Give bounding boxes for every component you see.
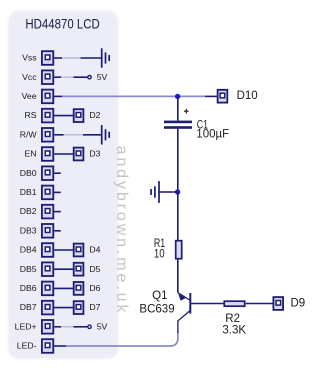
wire node A to C1 <box>177 96 179 120</box>
svg-text:D6: D6 <box>89 283 100 293</box>
svg-text:100µF: 100µF <box>196 129 229 141</box>
svg-text:EN: EN <box>25 149 37 159</box>
pin R/W connector <box>42 128 53 142</box>
svg-text:DB7: DB7 <box>20 302 37 312</box>
svg-text:DB2: DB2 <box>20 206 37 216</box>
5V supply terminal (LED+) <box>88 325 91 328</box>
svg-text:5V: 5V <box>97 321 108 331</box>
svg-text:5V: 5V <box>97 72 108 82</box>
node A junction (Vee / C1 / D10) <box>175 94 180 99</box>
wire LED- to Q1 emitter <box>54 345 66 347</box>
connector D10 <box>218 90 228 103</box>
svg-text:DB0: DB0 <box>20 168 37 178</box>
svg-text:D2: D2 <box>89 110 100 120</box>
wire Vee to node A <box>54 95 62 97</box>
svg-text:DB5: DB5 <box>20 264 37 274</box>
wire Q1 base to R2 <box>191 303 223 305</box>
pin EN connector <box>42 147 53 161</box>
connector D3 <box>74 148 84 161</box>
wire node B to R1 <box>177 192 179 240</box>
wire R1 to Q1 collector <box>177 260 179 293</box>
svg-text:DB4: DB4 <box>20 245 37 255</box>
connector D4 <box>74 244 84 257</box>
pin LED+ connector <box>42 320 53 334</box>
pin DB0 connector <box>42 166 53 180</box>
svg-text:10: 10 <box>154 249 165 261</box>
pin DB4 connector <box>42 243 53 257</box>
wire C1 to node B <box>177 129 179 192</box>
5V supply terminal (Vcc) <box>88 76 91 79</box>
wire Vss to ground <box>54 57 62 59</box>
pin DB7 connector <box>42 301 53 315</box>
svg-text:andybrown.me.uk: andybrown.me.uk <box>113 146 130 316</box>
svg-text:Vee: Vee <box>22 91 37 101</box>
svg-text:D4: D4 <box>89 245 100 255</box>
connector D9 <box>273 297 283 310</box>
ground symbol (R/W) <box>101 125 103 144</box>
pin RS connector <box>42 109 53 123</box>
svg-text:Vss: Vss <box>22 53 37 63</box>
wire DB6 to D6 <box>54 287 73 289</box>
svg-text:HD44870 LCD: HD44870 LCD <box>25 15 99 31</box>
connector D6 <box>74 282 84 295</box>
pin Vss connector <box>42 51 53 65</box>
wire R2 to D9 <box>246 303 273 305</box>
connector D5 <box>74 263 84 276</box>
svg-text:R/W: R/W <box>20 129 38 139</box>
stub wire DB1 <box>54 191 61 193</box>
svg-text:Vcc: Vcc <box>22 72 37 82</box>
transistor Q1 collector limb with arrow <box>178 293 191 301</box>
resistor R1 <box>176 241 182 259</box>
svg-text:3.3K: 3.3K <box>222 325 246 337</box>
connector D2 <box>74 109 84 122</box>
svg-text:BC639: BC639 <box>139 304 174 316</box>
capacitor C1 plus sign <box>184 110 189 112</box>
wire LED+ to 5V <box>54 326 61 328</box>
pin DB2 connector <box>42 205 53 219</box>
svg-text:R2: R2 <box>225 313 240 325</box>
svg-text:LED-: LED- <box>17 341 37 351</box>
pin Vcc connector <box>42 70 53 84</box>
stub wire DB0 <box>54 172 61 174</box>
wire R/W to ground <box>54 134 64 136</box>
connector D7 <box>74 301 84 314</box>
stub wire DB2 <box>54 211 61 213</box>
capacitor C1 <box>164 121 192 124</box>
ground symbol (Vss) <box>101 48 103 67</box>
svg-text:RS: RS <box>25 110 37 120</box>
transistor Q1 emitter limb <box>178 310 190 333</box>
wire node B to ground <box>159 191 178 193</box>
pin DB1 connector <box>42 186 53 200</box>
svg-text:D7: D7 <box>89 302 100 312</box>
svg-text:DB3: DB3 <box>20 225 37 235</box>
wire DB4 to D4 <box>54 249 73 251</box>
wire EN to D3 <box>54 153 73 155</box>
ground symbol (node B) <box>158 181 160 203</box>
pin LED- connector <box>42 339 53 353</box>
stub wire DB3 <box>54 230 61 232</box>
wire DB5 to D5 <box>54 268 73 270</box>
wire Vcc to 5V <box>54 76 61 78</box>
svg-text:DB6: DB6 <box>20 283 37 293</box>
svg-text:D10: D10 <box>237 90 258 102</box>
wire RS to D2 <box>54 115 73 117</box>
pin DB5 connector <box>42 262 53 276</box>
svg-text:Q1: Q1 <box>152 290 167 302</box>
svg-text:D3: D3 <box>89 149 100 159</box>
wire DB7 to D7 <box>54 307 73 309</box>
svg-text:LED+: LED+ <box>15 321 37 331</box>
pin Vee connector <box>42 90 53 104</box>
transistor Q1 base bar <box>189 293 191 314</box>
resistor R2 <box>224 301 244 306</box>
pin DB3 connector <box>42 224 53 238</box>
svg-text:DB1: DB1 <box>20 187 37 197</box>
svg-text:D5: D5 <box>89 264 100 274</box>
svg-text:D9: D9 <box>291 298 306 310</box>
pin DB6 connector <box>42 282 53 296</box>
node B junction (C1 / ground / R1) <box>175 189 180 194</box>
